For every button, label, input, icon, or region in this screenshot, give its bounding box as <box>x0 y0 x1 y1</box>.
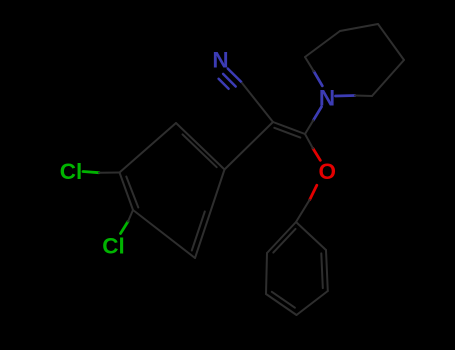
wire ring B inner double bond 1 <box>273 229 295 253</box>
svg-text:N: N <box>319 86 335 111</box>
wire ring B edge C3-C4 <box>266 294 297 315</box>
wire nitrile triple bond line 3 (blue) <box>219 79 229 89</box>
wire ring A edge C4-C5 <box>133 210 195 258</box>
wire alpha C = beta C double bond line 2 <box>274 128 300 138</box>
wire ring A edge C3-C4 <box>120 173 134 211</box>
wire N to pip C6 bond (C half) <box>305 57 314 71</box>
svg-text:Cl: Cl <box>60 159 83 184</box>
wire beta C to N bond (C half) <box>305 120 313 134</box>
wire ring B edge C2-C3 <box>266 253 267 294</box>
wire ring B edge C6-C1 <box>296 222 326 250</box>
wire piperidine edge C3-C4 <box>378 24 404 60</box>
wire ring A inner double bond 3 <box>192 212 205 251</box>
wire ring A inner double bond 2 <box>126 177 138 208</box>
wire piperidine edge C4-C5 <box>340 24 378 31</box>
wire ring A edge C1-C2 <box>176 123 225 170</box>
wire Cl1 to ring A C3 bond (Cl half, green) <box>83 172 99 173</box>
ether O bonds (red halves) <box>310 149 321 200</box>
chlorine Cl1 bond <box>83 172 133 234</box>
wire ring B inner double bond 2 <box>272 292 295 308</box>
wire nitrile triple bond line 2 (blue) <box>223 74 236 87</box>
piperidine N bonds (blue halves) <box>313 71 355 120</box>
wire nitrile triple bond line 1 (blue) <box>228 69 241 82</box>
wire Cl2 to ring A C4 bond (C half) <box>128 210 133 222</box>
wire beta C to O bond (O half, red) <box>313 149 320 161</box>
wire O to phenyl C1 bond (C half) <box>296 200 310 222</box>
wire nitrile C to alpha C bond <box>242 83 273 122</box>
wire N to pip C6 bond (N half, blue) <box>314 71 323 86</box>
svg-text:O: O <box>319 159 337 184</box>
wire alpha C = beta C double bond line 1 <box>273 122 305 134</box>
nitrile group C#N <box>219 69 242 89</box>
wire Cl2 to ring A C4 bond (Cl half, green) <box>121 222 129 234</box>
wire ring B inner double bond 3 <box>321 253 323 288</box>
wire beta C to O bond (C half) <box>305 134 313 149</box>
wire ring B edge C4-C5 <box>297 291 328 315</box>
wire beta C to N bond (N half, blue) <box>313 107 321 121</box>
svg-text:Cl: Cl <box>102 234 125 259</box>
wire ring A inner double bond 1 <box>183 134 217 167</box>
wire N to pip C2 bond (C half) <box>355 95 372 98</box>
wire piperidine edge C5-C6 <box>305 31 340 57</box>
wire alpha C to ring A C1 bond <box>225 122 274 170</box>
svg-text:N: N <box>212 48 228 73</box>
wire N to pip C2 bond (N half, blue) <box>336 94 356 97</box>
wire Cl1 to ring A C3 bond (C half) <box>99 172 120 174</box>
wire ring A edge C5-C6-C1 <box>195 170 225 259</box>
wire ring A edge C2-C3 <box>120 123 177 173</box>
benzene ring A (3,4-dichlorophenyl) <box>120 123 225 258</box>
wire ring B edge C1-C2 <box>267 222 296 253</box>
wire ring B edge C5-C6 <box>326 250 328 291</box>
phenyl ring B (phenoxy) <box>266 222 328 315</box>
wire O to phenyl C1 bond (O half, red) <box>310 185 317 200</box>
wire piperidine edge C2-C3 <box>372 60 404 96</box>
